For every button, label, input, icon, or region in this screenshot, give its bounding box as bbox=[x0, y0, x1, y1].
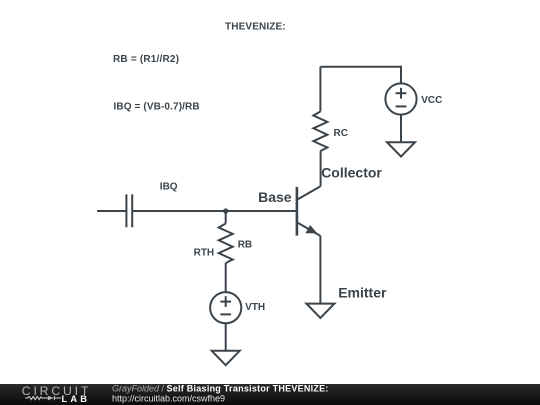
ground (below emitter) bbox=[306, 304, 334, 318]
voltage source VTH bbox=[210, 292, 241, 323]
wire: base node to transistor base bbox=[226, 210, 296, 212]
svg-text:Emitter: Emitter bbox=[338, 285, 387, 301]
wire: top rail to VCC bbox=[320, 67, 401, 84]
wire: base node down to resistor RB bbox=[225, 211, 227, 224]
voltage source VCC bbox=[385, 83, 416, 114]
resistor RC bbox=[313, 112, 327, 152]
svg-text:RB = (R1//R2): RB = (R1//R2) bbox=[113, 54, 179, 65]
ground (below VCC) bbox=[387, 142, 415, 156]
svg-text:Collector: Collector bbox=[321, 165, 382, 181]
svg-text:LAB: LAB bbox=[62, 394, 91, 404]
svg-text:http://circuitlab.com/cswfhe9: http://circuitlab.com/cswfhe9 bbox=[112, 393, 225, 403]
capacitor C1 bbox=[126, 194, 132, 227]
svg-text:VTH: VTH bbox=[245, 302, 265, 313]
resistor RB bbox=[219, 224, 233, 264]
svg-text:VCC: VCC bbox=[421, 95, 442, 106]
svg-text:RC: RC bbox=[334, 128, 348, 139]
svg-text:THEVENIZE:: THEVENIZE: bbox=[225, 22, 286, 33]
wire: RB down to VTH bbox=[225, 263, 227, 292]
svg-text:IBQ: IBQ bbox=[160, 182, 178, 193]
wire: emitter down to ground bbox=[319, 236, 321, 304]
transistor Q1 (NPN BJT) bbox=[297, 186, 321, 236]
svg-text:Base: Base bbox=[258, 189, 292, 205]
wire: RC up to top rail bbox=[319, 67, 321, 112]
svg-text:IBQ = (VB-0.7)/RB: IBQ = (VB-0.7)/RB bbox=[114, 101, 200, 112]
svg-text:RTH: RTH bbox=[194, 248, 215, 259]
footer black bar bbox=[0, 384, 540, 405]
wire: VCC to ground bbox=[400, 115, 402, 143]
svg-text:GrayFolded / Self Biasing Tran: GrayFolded / Self Biasing Transistor THE… bbox=[112, 384, 329, 394]
wire: VTH to ground bbox=[225, 323, 227, 351]
wire: input lead to capacitor C1 bbox=[97, 210, 126, 212]
wire: capacitor C1 to base node bbox=[132, 210, 226, 212]
logo schematic squiggle (resistor + diode) bbox=[25, 396, 61, 400]
wire: collector up to resistor RC bbox=[320, 151, 322, 186]
node: base junction dot bbox=[223, 208, 228, 213]
ground (below VTH) bbox=[212, 351, 240, 365]
svg-text:RB: RB bbox=[238, 240, 252, 251]
